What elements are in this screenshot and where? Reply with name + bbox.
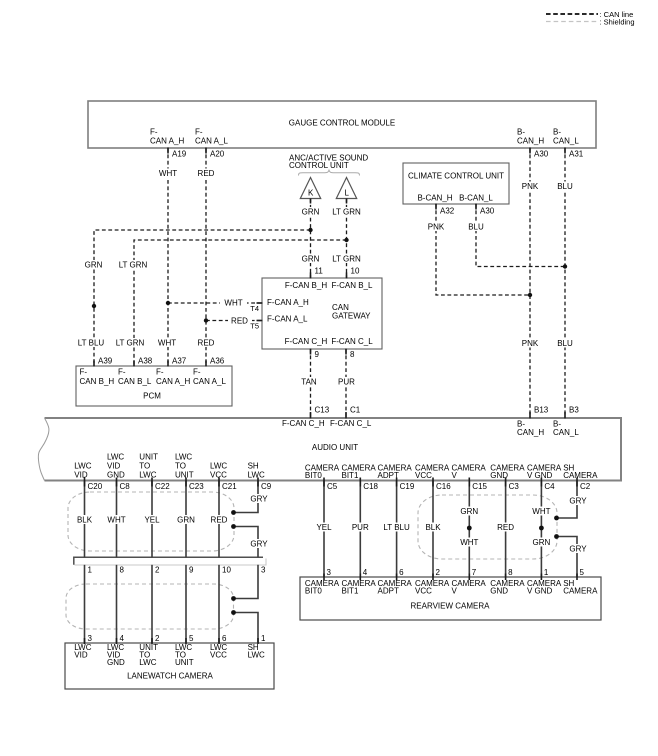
svg-text:2: 2 — [155, 634, 160, 643]
audio unit box — [38, 418, 621, 481]
svg-text:PCM: PCM — [143, 392, 161, 401]
CAN gateway unit box — [262, 278, 382, 349]
svg-text:AUDIO UNIT: AUDIO UNIT — [312, 443, 358, 452]
svg-text:B3: B3 — [569, 406, 579, 415]
wire label RED (PCM A36) — [196, 338, 216, 347]
audio pin label SH LWC — [248, 461, 265, 479]
svg-text:LWC: LWC — [248, 651, 265, 660]
shield drain dot upper1 — [231, 510, 236, 515]
svg-text:CAN A_L: CAN A_L — [193, 377, 226, 386]
svg-text:REARVIEW CAMERA: REARVIEW CAMERA — [411, 602, 491, 611]
audio pin tick C9 — [257, 478, 259, 487]
shielding ellipse rearview — [418, 495, 557, 559]
svg-text:F-: F- — [150, 128, 158, 137]
wire GRN/WHT audio C15 to rearview 7 — [468, 481, 470, 578]
wire RED audio C21 to lanewatch 6 — [218, 481, 220, 558]
svg-text:9: 9 — [189, 566, 194, 575]
rearview pin 7 CAMERA V — [452, 568, 487, 596]
lanewatch camera box — [65, 643, 274, 689]
gateway pin T4 — [250, 303, 262, 313]
svg-text:VCC: VCC — [415, 471, 432, 480]
wire label PUR — [350, 523, 370, 532]
gateway pin T5 — [250, 321, 262, 331]
wire label GRY right lower — [569, 544, 588, 553]
climate pin A32 — [436, 204, 455, 216]
lanewatch pin 3 LWC VID — [74, 634, 92, 660]
audio pin label CAMERA VCC — [415, 464, 450, 481]
audio pin tick C8 — [116, 478, 118, 487]
svg-text:6: 6 — [399, 568, 404, 577]
svg-text:LT BLU: LT BLU — [383, 523, 410, 532]
svg-text:C2: C2 — [580, 482, 591, 491]
svg-text:1: 1 — [544, 568, 549, 577]
svg-text:8: 8 — [508, 568, 513, 577]
svg-text:F-CAN C_H: F-CAN C_H — [282, 419, 325, 428]
svg-text:BIT0: BIT0 — [305, 471, 322, 480]
wire label GRN (C4 lower) — [531, 538, 552, 547]
svg-text:GRY: GRY — [569, 545, 587, 554]
svg-text:GRN: GRN — [460, 507, 478, 516]
svg-text:LT GRN: LT GRN — [332, 208, 361, 217]
wire LT BLU audio C19 to rearview 6 — [396, 481, 398, 578]
wire PNK climate A32 branch — [436, 204, 530, 295]
svg-text:F-: F- — [193, 368, 201, 377]
wire RED audio C3 to rearview 8 — [505, 481, 507, 578]
svg-text:F-CAN C_H: F-CAN C_H — [285, 337, 328, 346]
svg-text:A37: A37 — [172, 357, 187, 366]
svg-text:CAN B_L: CAN B_L — [118, 377, 152, 386]
lanewatch pin 1 SH LWC — [248, 634, 266, 660]
audio pin tick C2 — [576, 478, 578, 487]
wire label GRN (K) — [300, 207, 321, 216]
svg-text:GRN: GRN — [85, 261, 103, 270]
climate pin A30 — [476, 204, 495, 216]
audio pin tick C16 — [432, 478, 434, 487]
svg-text:WHT: WHT — [460, 538, 478, 547]
splice WHT to GRN — [539, 526, 544, 531]
svg-text:2: 2 — [155, 566, 160, 575]
wire WHT audio C8 to lanewatch 4 — [116, 481, 118, 558]
svg-text:GRN: GRN — [533, 538, 551, 547]
wire PUR gateway 8 to audio C1 — [345, 349, 347, 418]
shield drain dot lower1 — [231, 596, 236, 601]
svg-text:C13: C13 — [315, 406, 330, 415]
svg-text:F-: F- — [156, 368, 164, 377]
svg-text:1: 1 — [261, 634, 266, 643]
svg-text:3: 3 — [88, 634, 93, 643]
svg-text:GND: GND — [107, 658, 125, 667]
audio pin tick C5 — [323, 478, 325, 487]
wire label PUR — [337, 377, 357, 386]
wire label YEL — [315, 523, 333, 532]
wire GRY shield to rearview 5 — [557, 537, 578, 578]
svg-text:LT GRN: LT GRN — [116, 339, 145, 348]
svg-text:11: 11 — [315, 267, 324, 276]
svg-text:VCC: VCC — [210, 651, 227, 660]
svg-text:LWC: LWC — [107, 453, 124, 462]
svg-text:4: 4 — [363, 568, 368, 577]
svg-text:K: K — [308, 189, 314, 198]
svg-text:C21: C21 — [222, 482, 237, 491]
svg-text:A36: A36 — [210, 357, 225, 366]
lanewatch pin 6 LWC VCC — [210, 634, 227, 660]
svg-text:BLK: BLK — [425, 523, 441, 532]
svg-text:WHT: WHT — [158, 339, 176, 348]
svg-text:B-CAN_H: B-CAN_H — [417, 194, 452, 203]
svg-text:BLU: BLU — [468, 223, 484, 232]
svg-text:5: 5 — [580, 568, 585, 577]
wire GRN horizontal branch to PCM A39 — [94, 230, 311, 366]
audio pin tick C3 — [505, 478, 507, 487]
svg-text:LT GRN: LT GRN — [119, 261, 148, 270]
wire RED branch to gateway T5 — [206, 320, 262, 322]
svg-text:VID: VID — [107, 461, 121, 470]
svg-text:F-CAN B_H: F-CAN B_H — [285, 281, 327, 290]
svg-text:F-: F- — [80, 368, 88, 377]
audio pin tick C4 — [540, 478, 542, 487]
audio pin label CAMERA BIT0 — [305, 464, 340, 481]
svg-text:TAN: TAN — [301, 378, 317, 387]
audio pin C1 F-CAN C_L — [330, 406, 372, 429]
junction PNK — [528, 293, 532, 297]
svg-text:GRY: GRY — [250, 495, 268, 504]
svg-text:: Shielding: : Shielding — [600, 18, 635, 27]
PCM pin A38 — [134, 357, 153, 367]
PCM box — [76, 366, 232, 406]
PCM pin A39 — [94, 357, 113, 367]
wire label RED — [496, 523, 516, 532]
rearview pin 3 CAMERA BIT0 — [305, 568, 340, 596]
svg-text:C22: C22 — [155, 482, 170, 491]
svg-text:C3: C3 — [509, 482, 520, 491]
rearview pin 8 CAMERA GND — [490, 568, 525, 596]
svg-text:GRY: GRY — [569, 497, 587, 506]
wire label LT GRN (PCM A38) — [116, 338, 145, 347]
audio pin label SH CAMERA — [563, 464, 598, 481]
wire BLK audio C16 to rearview 2 — [432, 481, 434, 578]
gateway pin 10 — [347, 267, 360, 279]
ANC connector brace — [299, 170, 360, 175]
lanewatch pin 4 LWC VID GND — [107, 634, 125, 667]
svg-text:RED: RED — [211, 516, 228, 525]
junction on L wire — [344, 238, 348, 242]
svg-text:F-CAN C_L: F-CAN C_L — [330, 419, 372, 428]
splice GRN to LT BLU — [92, 304, 96, 308]
svg-text:F-CAN A_H: F-CAN A_H — [267, 298, 309, 307]
svg-text:PUR: PUR — [352, 523, 369, 532]
gauge control module U-GAUGE box — [88, 101, 596, 148]
svg-text:4: 4 — [120, 634, 125, 643]
audio pin tick C22 — [151, 478, 153, 487]
svg-text:A31: A31 — [569, 150, 584, 159]
ANC/active sound control unit label — [289, 154, 368, 171]
audio pin label CAMERA V — [452, 464, 487, 481]
rearview pin 2 CAMERA VCC — [415, 568, 450, 596]
svg-text:8: 8 — [350, 350, 355, 359]
svg-text:LWC: LWC — [210, 461, 227, 470]
lanewatch pin 5 LWC TO UNIT — [175, 634, 194, 667]
svg-text:TO: TO — [175, 461, 186, 470]
legend CAN line — [546, 10, 633, 19]
svg-text:LWC: LWC — [175, 453, 192, 462]
svg-text:C23: C23 — [189, 482, 204, 491]
svg-text:B-: B- — [553, 128, 561, 137]
gateway pin 11 — [311, 267, 324, 279]
rearview camera box — [300, 577, 601, 620]
svg-text:C9: C9 — [261, 482, 272, 491]
wire PUR audio C18 to rearview 4 — [359, 481, 361, 578]
wire label PNK (climate) — [426, 222, 447, 231]
rearview pin 1 CAMERA V GND — [527, 568, 562, 596]
wire label GRY right upper — [569, 496, 588, 505]
audio pin tick C15 — [468, 478, 470, 487]
wire label WHT A19 — [157, 169, 179, 178]
svg-text:A32: A32 — [440, 207, 455, 216]
PCM pin A36 — [206, 357, 225, 367]
svg-text:CLIMATE CONTROL UNIT: CLIMATE CONTROL UNIT — [408, 172, 504, 181]
audio pin label LWC VID — [74, 461, 91, 479]
gauge pin A31 B-CAN_L — [553, 128, 584, 159]
shield drain dot right1 — [554, 516, 559, 521]
svg-text:PUR: PUR — [338, 378, 355, 387]
svg-text:T4: T4 — [250, 304, 259, 313]
wire label WHT (PCM A37) — [157, 338, 178, 347]
wire GRY shield to lanewatch 1 — [234, 613, 259, 644]
svg-text:V: V — [452, 587, 458, 596]
junction on K wire — [308, 228, 312, 232]
svg-text:2: 2 — [436, 568, 441, 577]
svg-text:CAN A_H: CAN A_H — [150, 137, 184, 146]
audio pin label LWC VID GND — [107, 453, 125, 480]
wire label PNK B-CAN_H — [520, 182, 541, 191]
svg-text:RED: RED — [497, 523, 514, 532]
wire label GRN (gateway pin 11) — [300, 254, 321, 263]
shield drain dot right2 — [554, 534, 559, 539]
svg-text:3: 3 — [261, 566, 266, 575]
svg-text:C5: C5 — [327, 482, 338, 491]
svg-text:PNK: PNK — [522, 182, 539, 191]
svg-text:8: 8 — [120, 566, 125, 575]
svg-text:VID: VID — [74, 651, 88, 660]
audio pin tick C19 — [396, 478, 398, 487]
terminal K stub — [310, 199, 312, 204]
ANC terminal K — [300, 178, 320, 199]
PCM pin A37 — [168, 357, 187, 367]
junction on RED wire — [204, 318, 208, 322]
svg-text:RED: RED — [231, 317, 248, 326]
junction BLU — [563, 264, 567, 268]
audio pin C13 F-CAN C_H — [282, 406, 330, 429]
svg-text:YEL: YEL — [316, 523, 332, 532]
svg-text:A30: A30 — [534, 150, 549, 159]
wire GRY shield drain audio C9 — [234, 481, 259, 513]
svg-text:CAN_L: CAN_L — [553, 428, 579, 437]
svg-text:LT GRN: LT GRN — [332, 255, 361, 264]
svg-text:C18: C18 — [363, 482, 378, 491]
svg-text:LWC: LWC — [74, 461, 91, 470]
svg-text:L: L — [344, 189, 349, 198]
svg-text:A20: A20 — [210, 150, 225, 159]
svg-text:GAUGE CONTROL MODULE: GAUGE CONTROL MODULE — [289, 119, 395, 128]
svg-text:BIT1: BIT1 — [342, 471, 359, 480]
shielding ellipse LWC lower — [66, 584, 234, 629]
shield drain dot lower2 — [231, 610, 236, 615]
svg-text:6: 6 — [222, 634, 227, 643]
svg-text:LWC: LWC — [139, 658, 156, 667]
wire label BLK — [75, 515, 94, 524]
wire label WHT (C4 upper) — [531, 507, 552, 516]
svg-text:3: 3 — [327, 568, 332, 577]
svg-text:V GND: V GND — [527, 471, 553, 480]
splice GRN to WHT — [467, 526, 472, 531]
svg-text:PNK: PNK — [428, 223, 445, 232]
svg-text:V GND: V GND — [527, 587, 553, 596]
svg-text:C20: C20 — [88, 482, 103, 491]
svg-text:PNK: PNK — [522, 339, 539, 348]
audio pin label CAMERA BIT1 — [342, 464, 377, 481]
wire GRY shield drain below bar — [234, 565, 259, 599]
rearview pin 5 SH CAMERA — [563, 568, 598, 596]
gauge pin A20 F-CAN A_L — [195, 128, 228, 159]
wire BLK audio C20 to lanewatch 3 — [84, 481, 86, 558]
svg-text:C1: C1 — [350, 406, 361, 415]
wire GRN from terminal K to gateway pin 11 — [310, 199, 312, 279]
svg-text:CAN_H: CAN_H — [517, 137, 544, 146]
lanewatch pin 2 UNIT TO LWC — [139, 634, 160, 667]
audio pin tick C23 — [185, 478, 187, 487]
svg-text:BIT1: BIT1 — [342, 587, 359, 596]
wire label LT GRN (left branch) — [119, 260, 148, 269]
wire label RED A20 — [196, 169, 216, 178]
svg-text:LWC: LWC — [139, 470, 156, 479]
svg-text:LWC: LWC — [248, 470, 265, 479]
svg-text:F-CAN B_L: F-CAN B_L — [332, 281, 373, 290]
wire label BLK — [424, 523, 443, 532]
svg-text:BLK: BLK — [77, 516, 93, 525]
svg-text:LANEWATCH CAMERA: LANEWATCH CAMERA — [127, 672, 213, 681]
svg-text:A19: A19 — [172, 150, 187, 159]
svg-text:VID: VID — [74, 470, 88, 479]
wire label LT GRN (L) — [332, 207, 361, 216]
wire label GRN (left branch) — [83, 260, 104, 269]
shield drain dot upper2 — [231, 524, 236, 529]
svg-text:CONTROL UNIT: CONTROL UNIT — [289, 161, 349, 170]
wire label LT BLU — [383, 523, 411, 532]
ANC terminal L — [336, 178, 356, 199]
svg-text:UNIT: UNIT — [139, 453, 158, 462]
junction on WHT wire — [166, 301, 170, 305]
svg-text:GRN: GRN — [302, 255, 320, 264]
wire GRN audio C23 to lanewatch 5 — [185, 481, 187, 558]
wire BLU gauge A31 to audio B3 — [564, 148, 566, 418]
svg-text:GRN: GRN — [302, 208, 320, 217]
wire PNK gauge A30 to audio B13 — [529, 148, 531, 418]
svg-text:CAMERA: CAMERA — [563, 471, 598, 480]
svg-text:WHT: WHT — [532, 507, 550, 516]
gateway pin 8 — [346, 349, 355, 360]
svg-text:C16: C16 — [436, 482, 451, 491]
svg-text:F-CAN A_L: F-CAN A_L — [267, 315, 308, 324]
svg-text:C8: C8 — [120, 482, 131, 491]
wire label WHT (C15 lower) — [459, 538, 480, 547]
inline connector bar — [74, 557, 267, 565]
audio pin label LWC TO UNIT — [175, 453, 194, 480]
wire WHT branch to gateway T4 — [168, 302, 262, 304]
svg-text:GATEWAY: GATEWAY — [332, 312, 371, 321]
wire label GRY lower — [250, 539, 269, 548]
svg-text:WHT: WHT — [107, 516, 125, 525]
shielding ellipse LWC upper — [68, 492, 234, 551]
svg-text:F-: F- — [118, 368, 126, 377]
wire label GRN (C15 upper) — [459, 507, 480, 516]
svg-text:SH: SH — [248, 461, 259, 470]
svg-text:10: 10 — [351, 267, 360, 276]
audio pin tick C21 — [218, 478, 220, 487]
svg-text:UNIT: UNIT — [175, 658, 194, 667]
terminal L stub — [346, 199, 348, 204]
legend Shielding — [546, 18, 635, 27]
wire BLU climate A30 branch — [476, 204, 565, 267]
svg-text:B13: B13 — [534, 406, 549, 415]
audio pin B13 B-CAN_H — [517, 406, 549, 438]
svg-text:CAN_L: CAN_L — [553, 137, 579, 146]
svg-text:T5: T5 — [250, 322, 259, 331]
svg-text:CAN B_H: CAN B_H — [80, 377, 115, 386]
gauge pin A30 B-CAN_H — [517, 128, 549, 159]
wire label BLU (climate) — [466, 222, 486, 231]
svg-text:7: 7 — [472, 568, 477, 577]
wire WHT/GRN audio C4 to rearview 1 — [540, 481, 542, 578]
svg-text:BIT0: BIT0 — [305, 587, 322, 596]
audio pin label CAMERA ADPT — [378, 464, 413, 481]
wire label PNK (lower) — [520, 339, 541, 348]
wire YEL audio C5 to rearview 3 — [323, 481, 325, 578]
rearview pin 6 CAMERA ADPT — [378, 568, 413, 596]
audio pin label UNIT TO LWC — [139, 453, 158, 480]
wire YEL audio C22 to lanewatch 2 — [151, 481, 153, 558]
wire TAN gateway 9 to audio C13 — [310, 349, 312, 418]
svg-text:CAN A_L: CAN A_L — [195, 137, 228, 146]
svg-text:F-: F- — [195, 128, 203, 137]
svg-text:GRY: GRY — [250, 540, 268, 549]
svg-text:5: 5 — [189, 634, 194, 643]
gateway pin 9 — [311, 349, 320, 360]
svg-text:B-: B- — [517, 128, 525, 137]
rearview pin 4 CAMERA BIT1 — [342, 568, 377, 596]
svg-text:CAN_H: CAN_H — [517, 428, 544, 437]
svg-text:F-CAN C_L: F-CAN C_L — [331, 337, 373, 346]
audio pin tick C18 — [359, 478, 361, 487]
wire label WHT — [106, 515, 127, 524]
wire LT GRN from terminal L to gateway pin 10 — [346, 199, 348, 279]
svg-text:V: V — [452, 471, 458, 480]
wire label TAN — [299, 377, 319, 386]
svg-text:WHT: WHT — [159, 169, 177, 178]
svg-text:RED: RED — [198, 339, 215, 348]
wire label BLU B-CAN_L — [555, 182, 575, 191]
climate control unit box — [403, 163, 509, 204]
wire label GRN — [176, 515, 197, 524]
svg-text:GRN: GRN — [177, 516, 195, 525]
svg-text:YEL: YEL — [144, 516, 160, 525]
svg-text:GND: GND — [490, 587, 508, 596]
svg-text:A39: A39 — [98, 357, 113, 366]
wire GRY shield drain audio C2 — [557, 481, 578, 519]
svg-text:A30: A30 — [480, 207, 495, 216]
svg-text:9: 9 — [315, 350, 320, 359]
svg-text:UNIT: UNIT — [175, 470, 194, 479]
wire GRY shield to inline pin 3 — [234, 527, 259, 558]
